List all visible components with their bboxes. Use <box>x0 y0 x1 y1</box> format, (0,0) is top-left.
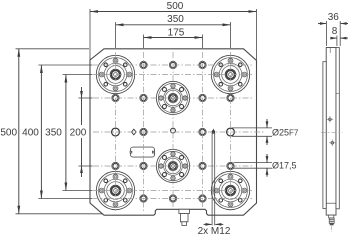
corner module bottom-right <box>211 171 249 209</box>
horizontal centerline row 132 (plate middle) <box>93 131 265 133</box>
dimension 8 (side view) <box>330 26 348 46</box>
dimension Ø25F7 (right) <box>232 119 299 145</box>
diamond index pin <box>132 129 137 135</box>
grid hole row 65 <box>140 61 147 68</box>
vertical centerline col 230.5 <box>230 52 232 213</box>
center hole <box>171 128 176 133</box>
bore Ø25F7 left <box>112 128 120 136</box>
grid hole row 132 <box>140 128 147 135</box>
dimension 350 (top) <box>116 14 231 48</box>
dimension 175 (top) <box>144 27 203 48</box>
svg-text:36: 36 <box>328 12 340 23</box>
dimension 500 (top) <box>90 1 257 61</box>
vertical centerline col 173 <box>172 52 174 207</box>
dimension 500 (left) <box>0 49 103 214</box>
dimension 200 (left, arrows outside) <box>70 87 93 177</box>
dimension 2x M12 (bottom) <box>198 128 231 237</box>
side view body <box>323 48 339 216</box>
vertical centerline col 115.5 <box>115 52 117 213</box>
side view centre row mark <box>321 131 343 133</box>
svg-text:8: 8 <box>332 26 338 37</box>
corner module bottom-left <box>96 171 134 209</box>
middle module upper <box>156 81 189 114</box>
dimension 400 (left) <box>22 65 92 199</box>
svg-text:350: 350 <box>45 128 62 139</box>
horizontal centerline row 65 <box>93 64 253 66</box>
corner module top-left <box>96 55 134 93</box>
dimension Ø17,5 (right) <box>234 154 297 177</box>
svg-text:500: 500 <box>167 1 184 12</box>
corner module top-right <box>211 55 249 93</box>
horizontal centerline row 74.5 (corner modules) <box>93 74 253 76</box>
svg-text:500: 500 <box>0 128 17 139</box>
svg-text:200: 200 <box>70 128 87 139</box>
vertical centerline col 143.5 <box>143 52 145 213</box>
svg-text:2x M12: 2x M12 <box>198 226 231 237</box>
bore Ø25F7 right <box>227 128 235 136</box>
round index pin (M12) <box>212 131 215 134</box>
plate outline (main top view, chamfered square with bottom notch) <box>90 49 257 215</box>
bottom pneumatic connector (main view) <box>179 209 190 225</box>
ID plate rounded rectangle <box>131 147 155 157</box>
horizontal centerline row 98 <box>93 97 253 99</box>
dimension 36 (side view) <box>318 12 348 46</box>
side view pin hole lower <box>329 140 336 147</box>
vertical centerline col 202.5 <box>202 52 204 207</box>
svg-text:Ø17,5: Ø17,5 <box>272 161 297 171</box>
grid hole row 198.5 <box>140 195 147 202</box>
side view bottom connector <box>329 215 335 232</box>
side view pin hole upper <box>327 116 334 123</box>
svg-text:350: 350 <box>167 14 184 25</box>
horizontal centerline row 166 <box>93 165 253 167</box>
svg-text:Ø25F7: Ø25F7 <box>272 127 299 137</box>
dimension 350 (left) <box>45 75 92 191</box>
horizontal centerline row 190.5 (corner modules) <box>93 190 253 192</box>
grid hole row 98 <box>112 94 119 101</box>
svg-text:400: 400 <box>22 128 39 139</box>
svg-text:175: 175 <box>168 27 185 38</box>
grid hole row 166 <box>112 162 119 169</box>
middle module lower <box>156 149 189 182</box>
horizontal centerline row 198.5 <box>93 198 253 200</box>
